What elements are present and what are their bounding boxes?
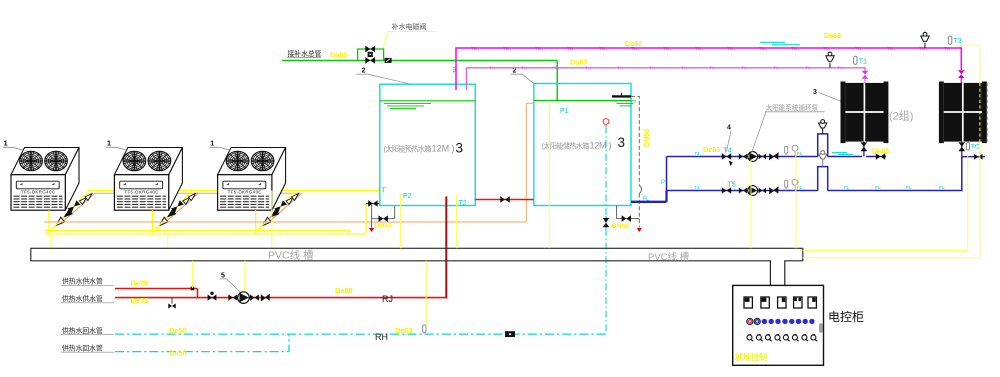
wire duct drop to control cabinet (right) (784, 261, 786, 286)
electric control cabinet body (733, 285, 824, 365)
svg-text:Da63: Da63 (824, 31, 841, 40)
heat pump unit 2 (air-source heat pump, model TF5-DKRG40C) (114, 148, 182, 211)
blue suction pipe from tank 2 to pump riser (631, 201, 667, 203)
flow tag marks on second magenta line (489, 66, 843, 71)
svg-text:TU: TU (695, 46, 701, 51)
bypass manual valve (365, 46, 375, 53)
tank 2 drain valve (622, 215, 631, 222)
orange return pipe from units to storage tank (long horizontal + riser) (44, 103, 534, 222)
water meter on RH line (black) (505, 331, 515, 337)
svg-text:TH: TH (837, 66, 843, 71)
yellow header left end join (45, 231, 47, 234)
svg-text:TU: TU (791, 46, 797, 51)
svg-text:就地控制: 就地控制 (735, 352, 767, 362)
svg-text:TH: TH (681, 66, 687, 71)
svg-text:TH: TH (553, 66, 559, 71)
pump suction riser (666, 157, 668, 202)
unit 3 yellow diagonal connection (256, 221, 266, 232)
svg-text:3: 3 (813, 89, 817, 96)
dark red riser from RJ line up into tank 1 port T2 (445, 197, 447, 299)
svg-text:接补水总管: 接补水总管 (288, 49, 322, 58)
svg-text:DN40: DN40 (375, 223, 393, 230)
svg-text:T5: T5 (728, 182, 736, 189)
tank 2 drain outlet arrow (637, 228, 642, 232)
indicator lamp (red) (747, 318, 753, 324)
label: make-up solenoid valve (yellow callout) (383, 22, 437, 48)
small drain valve below red line (168, 298, 175, 309)
tank 2 water level line (534, 100, 631, 102)
unit 2 callout label 1 (106, 139, 127, 151)
junction dot on red supply line (191, 287, 195, 291)
sensor circle on tank 2 (603, 119, 609, 127)
thermometer well on branch 2 (785, 180, 788, 190)
unit 1 connection pipes (diagonal risers with valves) (48, 191, 95, 234)
svg-text:TU: TU (727, 46, 733, 51)
svg-text:De63: De63 (703, 145, 720, 154)
cabinet side slot (819, 323, 822, 332)
cyan flow arrow right of bridge (832, 152, 853, 154)
cyan dash-dot return riser inside tank 2 (605, 127, 607, 217)
svg-text:TF5-DKRG40C: TF5-DKRG40C (228, 190, 262, 195)
unit 2 yellow riser pipe to header (151, 210, 153, 234)
yellow wire drop into PVC tray at x=50.3 (49, 234, 51, 248)
tank 1 water level hatch (384, 103, 431, 108)
check valve after pump 5 (261, 294, 270, 301)
pressure gauge on branch 2 (792, 179, 798, 190)
svg-text:(2组): (2组) (889, 109, 913, 123)
green make-up bypass loop (358, 49, 384, 60)
green make-up water main pipe Da50 (282, 59, 557, 61)
branch 2 air-vent bridge (818, 167, 828, 191)
svg-text:FL: FL (797, 151, 803, 157)
svg-text:TH: TH (521, 66, 527, 71)
svg-text:De90: De90 (335, 286, 353, 295)
svg-text:4: 4 (727, 125, 731, 132)
right collector inlet valve (on magenta riser) (958, 70, 965, 83)
tank 1 drain valve (379, 215, 388, 222)
label: solar system circulation pump (gray callout) (752, 103, 825, 152)
tray drop opening to cabinet (771, 260, 784, 263)
svg-text:De75: De75 (131, 296, 149, 305)
yellow wire drop into PVC tray at x=271.8 (271, 191, 273, 249)
svg-text:TH: TH (649, 66, 655, 71)
unit 2 yellow diagonal connection (153, 221, 163, 232)
gray dashed guide right of collector (986, 83, 988, 142)
pipe label text row 3 (61, 326, 114, 335)
unit 1 callout label 1 (3, 139, 24, 151)
automatic air vent on second magenta line (826, 52, 834, 68)
tank 1 inlet shut-off valve (366, 200, 380, 207)
cyan hot-water return pipe De50 (row 4) (115, 334, 289, 352)
red transfer pipe between tank 1 and tank 2 (475, 199, 534, 201)
svg-text:TU: TU (919, 46, 925, 51)
temperature sensor T3 (948, 36, 961, 45)
svg-text:供热水回水管: 供热水回水管 (62, 343, 103, 352)
svg-text:RH: RH (375, 332, 388, 342)
svg-text:供热水供水管: 供热水供水管 (62, 294, 103, 303)
valve V2 on branch 1 (739, 154, 747, 160)
magenta solar return pipe Da63 (top line, from right collector group to tank 1) (456, 48, 961, 90)
pump branch 1 pipe (to left collector group) (667, 156, 818, 158)
heat pump unit 1 (air-source heat pump, model TF5-DKRG40C) (11, 148, 79, 211)
tank 1 water level line (380, 100, 476, 102)
unit 1 yellow diagonal connection (50, 221, 60, 232)
sensor wire TC: tray right end to collector sensor (803, 150, 968, 250)
valve V1 on branch 2 (722, 187, 731, 194)
svg-text:供热水供水管: 供热水供水管 (62, 277, 103, 286)
sensor wire P2 (tank 1) to tray (400, 193, 402, 248)
air vent on branch 2 bridge (gray) (819, 151, 827, 167)
pipe label text row 2 (61, 294, 114, 303)
check valve on make-up line (black) (385, 58, 392, 63)
strainer/valve before pump 5 (208, 292, 217, 301)
return riser valve below tank 2 (603, 216, 610, 229)
svg-text:TH: TH (741, 66, 747, 71)
svg-text:FL: FL (844, 185, 850, 191)
svg-text:De63: De63 (872, 147, 889, 156)
yellow header right end join (348, 231, 350, 234)
svg-text:(太阳能储热水箱: (太阳能储热水箱 (542, 142, 590, 151)
svg-text:TF5-DKRG40C: TF5-DKRG40C (21, 190, 55, 195)
check valve on branch 1 (769, 153, 778, 159)
svg-text:补水电磁阀: 补水电磁阀 (392, 22, 427, 31)
branch 2 long pipe to right collector (828, 157, 962, 191)
wire from tray to supply line sensor (191, 261, 193, 288)
svg-text:Da50: Da50 (330, 51, 347, 60)
svg-text:FL: FL (875, 185, 881, 191)
svg-text:TU: TU (471, 46, 477, 51)
svg-text:TU: TU (944, 46, 950, 51)
tank 1 drain outlet arrow (369, 228, 374, 232)
svg-text:T4: T4 (724, 148, 732, 155)
callout label 5 (pump) (220, 273, 241, 293)
valve V3 on branch 1 (759, 154, 766, 160)
svg-text:TH: TH (617, 66, 623, 71)
temperature sensor TC (966, 143, 980, 151)
callout label 2 (solenoid assembly) (357, 68, 411, 84)
breaker symbol 4 (794, 297, 802, 308)
svg-text:PVC线 槽: PVC线 槽 (268, 248, 314, 261)
svg-text:TJ: TJ (694, 185, 700, 191)
svg-text:PVC线 槽: PVC线 槽 (648, 251, 690, 263)
yellow wire drop into PVC tray at x=167.8 (167, 234, 169, 248)
yellow supply line into tank 1 port T (88, 190, 380, 192)
sensor wire from tray to RH sensor (425, 261, 427, 325)
svg-text:TH: TH (805, 66, 811, 71)
svg-text:2: 2 (362, 68, 366, 75)
svg-text:DN50: DN50 (644, 129, 651, 147)
valve after pump 5 (250, 294, 259, 300)
unit 3 yellow riser pipe to header (255, 210, 257, 234)
indicator lamp (blue) (754, 318, 760, 324)
yellow supply header line 1 (46, 230, 349, 232)
branch 1 pipe after collector tee (866, 156, 886, 158)
red hot-water supply pipe De75 (row 1) (115, 288, 198, 290)
pipe label text row 1 (61, 277, 114, 286)
svg-text:FL: FL (797, 185, 803, 191)
yellow riser to tank 1 inlet valve (365, 204, 367, 234)
automatic air vent on top magenta line (921, 32, 929, 48)
heat pump unit 3 (air-source heat pump, model TF5-DKRG40C) (218, 148, 286, 211)
pipe label text row 4 (61, 343, 114, 352)
svg-text:TH: TH (489, 66, 495, 71)
flow tag marks on top magenta line (471, 46, 950, 51)
unit 1 yellow riser pipe to header (48, 210, 50, 234)
svg-text:De63: De63 (395, 326, 413, 335)
svg-text:12M ): 12M ) (590, 141, 612, 151)
PVC cable tray (long horizontal duct) (31, 248, 803, 260)
transfer pipe valve (500, 196, 509, 203)
unit 2 connection pipes (diagonal risers with valves) (151, 191, 198, 234)
valve V2 on branch 2 (739, 188, 747, 194)
svg-text:TU: TU (503, 46, 509, 51)
green pipe drop into tank 2 (556, 60, 558, 101)
circulation pump P-2 (solar loop) (748, 186, 758, 196)
cyan hot-water return pipe De50 (row 3) (115, 333, 606, 335)
sensor wire P1 (tank 2) to tray (548, 102, 550, 248)
svg-text:TF5-DKRG40C: TF5-DKRG40C (124, 190, 158, 195)
breaker symbol 5 (808, 297, 816, 308)
temperature sensor on RH line (423, 325, 426, 333)
svg-text:T3: T3 (954, 38, 962, 45)
svg-text:1: 1 (107, 139, 111, 148)
right drain/balance valve stub (962, 156, 985, 158)
svg-text:TU: TU (567, 46, 573, 51)
valve before pump 5 (228, 294, 237, 300)
right collector outlet valve (vertical) (959, 142, 966, 157)
svg-text:(太阳能预热水箱: (太阳能预热水箱 (384, 145, 432, 154)
svg-text:2: 2 (513, 68, 517, 75)
svg-text:TU: TU (535, 46, 541, 51)
second magenta solar return pipe Da63 (from left collector group to tank 1) (466, 68, 865, 90)
yellow supply header line 2 (46, 233, 366, 235)
svg-text:1: 1 (210, 139, 214, 148)
solar collector group 2 (right) (939, 82, 987, 144)
sensor wire from branch gauges to tray (795, 149, 797, 248)
check valve on branch 2 (769, 187, 778, 193)
valve V3 on branch 2 (759, 188, 766, 194)
svg-text:TU: TU (823, 46, 829, 51)
svg-text:DN40: DN40 (612, 223, 630, 230)
sensor wire T3: tray right end up to T3 on top magenta line (803, 142, 980, 258)
svg-text:De50: De50 (169, 326, 187, 335)
wire duct drop to control cabinet (left) (769, 261, 771, 286)
svg-text:1: 1 (4, 139, 8, 148)
breaker symbol 1 (744, 297, 752, 308)
thermometer well on branch 1 (785, 146, 788, 156)
svg-text:T1: T1 (859, 58, 867, 65)
tank 1 drain piping DN40 (372, 205, 395, 228)
sensor wire T2 (tank 1) to tray (456, 194, 458, 249)
svg-text:FL: FL (643, 197, 649, 203)
svg-text:FL: FL (939, 185, 945, 191)
svg-text:RJ: RJ (382, 294, 393, 304)
left collector outlet valve (vertical) (861, 142, 868, 157)
left collector inlet valve (on magenta riser) (862, 71, 869, 83)
balancing valve on branch 1 (876, 153, 885, 160)
svg-text:电控柜: 电控柜 (828, 310, 864, 324)
red hot-water supply pipe De75 (row 2) + combined line to pump (115, 297, 447, 299)
svg-text:TU: TU (663, 46, 669, 51)
svg-text:TJ: TJ (694, 151, 700, 157)
svg-text:De75: De75 (131, 278, 149, 287)
svg-text:TH: TH (773, 66, 779, 71)
orange upper header line (95, 192, 300, 194)
control switches row (747, 334, 817, 341)
svg-text:TU: TU (759, 46, 765, 51)
svg-text:3: 3 (618, 135, 626, 150)
DN50 overflow pipe (gray dashed) with crossing loop and drain (631, 96, 639, 227)
svg-text:P2: P2 (403, 193, 412, 200)
temperature sensor T1 (854, 56, 867, 65)
breaker symbol 2 (761, 297, 769, 308)
tank 2 overflow level gauge (black) (612, 93, 631, 97)
indicator lamps (blue dots) (762, 319, 815, 324)
branch 1 air-vent bridge (818, 134, 828, 157)
pump branch 2 pipe (to right collector group) (667, 190, 818, 192)
unit 3 connection pipes (diagonal risers with valves) (255, 191, 302, 234)
svg-text:TU: TU (599, 46, 605, 51)
solar collector group 1 (left) (841, 82, 889, 144)
power wire to solar pumps (750, 160, 752, 248)
svg-text:12M ): 12M ) (432, 144, 455, 154)
svg-text:P1: P1 (560, 108, 569, 115)
breaker symbol 3 (778, 297, 786, 308)
make-up water solenoid valve (365, 52, 375, 64)
power wire from tray to pump 5 (244, 261, 246, 292)
tank 2 overflow hatch (green) (614, 101, 637, 106)
svg-text:TU: TU (855, 46, 861, 51)
red vertical junction (197, 289, 199, 298)
pressure gauge on branch 1 (792, 145, 798, 156)
svg-text:TH: TH (709, 66, 715, 71)
svg-text:TU: TU (452, 67, 457, 73)
svg-text:T2: T2 (459, 200, 467, 207)
hot water circulation pump 5 (238, 292, 250, 304)
callout label 4 (circulation pumps) (727, 125, 733, 167)
svg-text:De50: De50 (169, 349, 187, 358)
svg-text:T: T (382, 188, 387, 195)
svg-text:FL: FL (906, 185, 912, 191)
callout label 3 (collectors) (813, 89, 841, 101)
unit 3 callout label 1 (210, 139, 231, 151)
callout label 2 (tank 2) (511, 68, 534, 84)
label: connect to make-up water main (287, 49, 322, 58)
svg-text:供热水回水管: 供热水回水管 (62, 326, 103, 335)
cyan dash-dot riser below valve to RH line (605, 229, 607, 334)
svg-text:3: 3 (456, 141, 464, 156)
valve V1 on branch 1 (722, 153, 731, 160)
svg-text:Da63: Da63 (570, 58, 587, 67)
svg-text:Da63: Da63 (625, 39, 642, 48)
circulation pump P-1 (solar loop) (748, 152, 758, 162)
svg-text:TC: TC (971, 144, 980, 151)
water tank 2 (solar heat-storage tank 12m3) (534, 84, 631, 206)
tank 2 drain piping DN40 (617, 206, 640, 219)
svg-text:P: P (661, 180, 665, 186)
svg-text:TU: TU (887, 46, 893, 51)
cyan flow arrow on top magenta line (760, 42, 800, 45)
air vent on branch 1 bridge (819, 120, 827, 134)
svg-text:太阳能系统循环泵: 太阳能系统循环泵 (766, 103, 819, 112)
water tank 1 (solar pre-heat tank 12m3) (380, 84, 476, 205)
